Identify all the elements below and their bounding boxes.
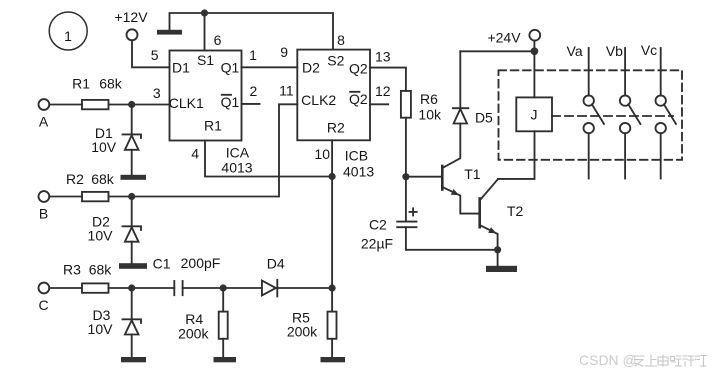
watermark chinese glyphs: [633, 355, 707, 367]
wire D4 to R5/pin10 junction: [277, 287, 332, 289]
+24V supply terminal: [487, 30, 540, 52]
figure number 1: [49, 12, 87, 50]
wire emitter junction to ground: [497, 250, 499, 266]
svg-text:13: 13: [375, 49, 391, 65]
svg-text:2: 2: [250, 83, 258, 99]
svg-text:T2: T2: [507, 203, 524, 219]
svg-text:CLK1: CLK1: [169, 95, 204, 111]
wire pin 6 S1: [204, 13, 206, 51]
ground (under D1): [121, 175, 147, 180]
label ICA 4013: [221, 145, 252, 176]
svg-text:+24V: +24V: [487, 30, 521, 46]
svg-text:R2: R2: [327, 119, 345, 135]
dashed actuator link J to contacts: [552, 115, 673, 117]
resistor R1 68k: [72, 75, 123, 109]
ground (top, S1/S2 bus): [157, 30, 182, 35]
flip-flop ICB 4013: [297, 50, 370, 141]
svg-text:T1: T1: [464, 166, 481, 182]
svg-text:R6: R6: [420, 91, 438, 107]
node C junction: [128, 284, 135, 291]
node R6/C2/T1 junction: [402, 173, 409, 180]
+12V supply terminal: [114, 9, 148, 40]
svg-text:8: 8: [337, 32, 345, 48]
svg-text:+12V: +12V: [114, 9, 148, 25]
resistor R4 200k: [178, 288, 228, 357]
node D4/R5 junction: [329, 284, 336, 291]
junction S1 bus: [201, 9, 208, 16]
watermark CSDN: [579, 352, 637, 368]
svg-text:R1: R1: [72, 76, 90, 92]
wire R2 to CLK2: [109, 104, 298, 196]
svg-text:A: A: [39, 114, 49, 130]
wire +12V terminal to pin 5 D1: [132, 40, 170, 67]
node emitter/C2/ground junction: [494, 246, 501, 253]
terminal A: [39, 99, 50, 129]
wire A to R1: [49, 104, 82, 106]
wire C2 return to emitter ground: [406, 249, 498, 251]
wire pin 10 R2 down to D4/R5 junction: [331, 140, 333, 288]
node B junction: [128, 193, 135, 200]
wire pin 2 Q1bar stub: [242, 103, 260, 105]
svg-text:D5: D5: [475, 110, 493, 126]
contact Va: [584, 48, 605, 179]
ground (under R5): [321, 357, 346, 362]
ground (under D3): [121, 357, 146, 362]
svg-text:Q2: Q2: [349, 91, 368, 107]
transistor T1: [442, 124, 480, 214]
junction pin4/pin10: [329, 173, 336, 180]
svg-text:200pF: 200pF: [181, 255, 221, 271]
wire C to R3: [49, 287, 82, 289]
contact Vc: [656, 48, 677, 179]
node C1/R4 junction: [220, 284, 227, 291]
svg-text:200k: 200k: [287, 324, 318, 340]
svg-text:S1: S1: [197, 52, 214, 68]
diode D4: [262, 256, 285, 297]
svg-text:ICA: ICA: [226, 145, 250, 161]
svg-text:68k: 68k: [99, 75, 123, 91]
svg-text:68k: 68k: [91, 171, 115, 187]
resistor R2 68k: [66, 171, 115, 201]
svg-text:4013: 4013: [221, 160, 252, 176]
terminal B: [39, 191, 50, 221]
wire Q1 to D2: [242, 66, 298, 68]
svg-text:Q2: Q2: [349, 61, 368, 77]
wire C1 to D4: [183, 287, 262, 289]
svg-text:B: B: [39, 206, 48, 222]
wire +24V to relay coil: [533, 51, 535, 97]
capacitor C2 22uF: [361, 177, 417, 252]
svg-text:D1: D1: [172, 59, 190, 75]
relay coil J: [516, 97, 552, 131]
wire +24V bus to D5: [460, 50, 534, 52]
contact Vb: [620, 48, 641, 179]
svg-text:C2: C2: [369, 217, 387, 233]
wire R3 to C1: [109, 287, 175, 289]
svg-text:4013: 4013: [343, 163, 374, 179]
label ICB 4013: [343, 147, 374, 179]
zener diode D1 10V: [91, 105, 141, 175]
flip-flop ICA 4013: [169, 51, 242, 141]
svg-text:CLK2: CLK2: [301, 92, 336, 108]
svg-text:6: 6: [214, 32, 222, 48]
zener diode D2 10V: [88, 197, 141, 264]
zener diode D3 10V: [88, 288, 141, 357]
wire R1 to CLK1: [109, 104, 170, 106]
diode D5: [453, 51, 493, 125]
wire S1-S2 top bus: [170, 13, 334, 50]
wire R6 to T1 base junction: [405, 118, 407, 177]
svg-text:10k: 10k: [418, 106, 442, 122]
svg-text:1: 1: [249, 47, 257, 63]
svg-text:4: 4: [191, 146, 199, 162]
svg-text:CSDN @: CSDN @: [579, 352, 637, 368]
svg-text:1: 1: [64, 28, 72, 44]
svg-text:Va: Va: [567, 43, 583, 59]
svg-text:11: 11: [279, 83, 294, 99]
svg-text:R3: R3: [63, 262, 81, 278]
svg-text:Q1: Q1: [221, 59, 240, 75]
svg-text:10V: 10V: [88, 321, 114, 337]
ground (under R4): [214, 357, 237, 362]
svg-text:C1: C1: [153, 256, 171, 272]
wire pin 4 R1 to pin 10 junction: [205, 141, 332, 177]
svg-text:ICB: ICB: [345, 147, 368, 163]
svg-text:3: 3: [153, 85, 161, 101]
svg-text:R2: R2: [66, 171, 84, 187]
capacitor C1 200pF: [153, 255, 221, 295]
svg-text:10V: 10V: [88, 228, 114, 244]
ground (under T2 emitter): [486, 266, 517, 272]
wire Q2 pin 13 to R6: [370, 68, 406, 91]
svg-text:68k: 68k: [89, 262, 113, 278]
svg-text:C: C: [38, 297, 48, 313]
wire pin 12 Q2bar stub: [370, 103, 388, 105]
svg-text:10: 10: [314, 146, 330, 162]
svg-text:12: 12: [375, 83, 391, 99]
svg-text:200k: 200k: [178, 325, 209, 341]
svg-text:D2: D2: [302, 60, 320, 76]
ground (under D2): [119, 263, 147, 269]
svg-text:Vc: Vc: [641, 42, 657, 58]
dashed relay enclosure box: [499, 70, 683, 160]
wire T1 base: [406, 176, 442, 178]
svg-text:9: 9: [280, 44, 288, 60]
svg-text:5: 5: [151, 47, 159, 63]
node A junction: [128, 101, 135, 108]
terminal C: [38, 283, 49, 313]
svg-text:Vb: Vb: [606, 43, 623, 59]
resistor R5 200k: [287, 288, 337, 357]
resistor R6 10k: [401, 91, 442, 123]
svg-text:J: J: [531, 106, 538, 122]
transistor T2: [480, 131, 535, 252]
svg-text:22µF: 22µF: [361, 236, 393, 252]
svg-text:D4: D4: [267, 256, 285, 272]
resistor R3 68k: [63, 262, 112, 293]
junction +24V: [531, 47, 539, 55]
svg-text:10V: 10V: [91, 139, 117, 155]
wire B to R2: [49, 196, 82, 198]
svg-text:Q1: Q1: [221, 94, 240, 110]
svg-text:S2: S2: [327, 53, 344, 69]
svg-text:R1: R1: [204, 118, 222, 134]
